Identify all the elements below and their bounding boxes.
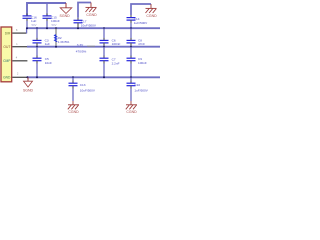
pin 1 wire xyxy=(12,46,27,48)
svg-text:CGND: CGND xyxy=(68,110,79,114)
svg-text:OUT: OUT xyxy=(3,45,10,49)
capacitor C16 xyxy=(26,13,28,16)
pin 2 wire xyxy=(12,76,27,78)
svg-text:CGND: CGND xyxy=(126,110,137,114)
svg-text:10uF/500V: 10uF/500V xyxy=(80,89,96,93)
junction dots rail C xyxy=(26,27,28,29)
capacitor C6 (x104 upper) xyxy=(103,28,105,38)
capacitor C9 (x131 lower) xyxy=(130,47,132,56)
junction dots rail D xyxy=(36,46,38,48)
chassis ground 4 xyxy=(126,101,137,109)
capacitor C15 xyxy=(46,13,48,16)
wire: rail E xyxy=(27,76,160,78)
wire: C14 top to chassis gnd 2 xyxy=(131,4,151,15)
svg-text:1uF/500V: 1uF/500V xyxy=(134,89,148,93)
capacitor C7 (x104 lower) xyxy=(103,47,105,56)
svg-text:1.3K/5%: 1.3K/5% xyxy=(58,40,70,44)
capacitor C13 (x73 bottom) xyxy=(72,77,74,81)
wire: vertical from pin8 up to rail C xyxy=(26,28,28,33)
svg-text:3.3V: 3.3V xyxy=(77,43,84,47)
svg-text:4: 4 xyxy=(16,57,18,60)
svg-text:GND: GND xyxy=(3,75,11,79)
svg-text:100nF: 100nF xyxy=(138,61,147,65)
wire: rail D xyxy=(27,46,160,48)
svg-text:C10: C10 xyxy=(134,83,140,87)
chassis ground 2 xyxy=(146,4,157,13)
capacitor C5 (x37 lower) xyxy=(36,47,38,56)
wire: top ground rail (SGND net) xyxy=(27,3,66,16)
pin 4 stub wire xyxy=(12,60,27,62)
svg-text:50V: 50V xyxy=(52,23,57,27)
IC U1 body xyxy=(1,27,12,82)
svg-text:2.2nF: 2.2nF xyxy=(112,61,120,65)
capacitor C14 xyxy=(130,15,132,18)
SGND power symbol (top) xyxy=(65,3,67,8)
wire C15 top vertical xyxy=(46,3,48,16)
resistor R2 xyxy=(55,28,57,47)
svg-text:470/5%: 470/5% xyxy=(76,50,87,54)
svg-text:8: 8 xyxy=(16,29,18,32)
svg-text:SGND: SGND xyxy=(23,88,34,92)
chassis ground 3 xyxy=(68,101,79,109)
capacitor C10 (x131 bottom) xyxy=(130,77,132,81)
capacitor C4 (x37 upper) xyxy=(36,28,38,38)
svg-text:CMP: CMP xyxy=(3,59,11,63)
svg-text:10uF/500V: 10uF/500V xyxy=(81,24,97,28)
svg-text:2: 2 xyxy=(17,73,19,76)
pin 8 wire xyxy=(12,32,26,34)
svg-text:CGND: CGND xyxy=(146,14,157,18)
svg-text:1uF/500V: 1uF/500V xyxy=(134,21,148,25)
SGND power symbol 2 xyxy=(27,77,29,81)
chassis ground 1 xyxy=(86,3,97,13)
svg-text:100nF: 100nF xyxy=(112,42,121,46)
junction dots rail E xyxy=(26,76,28,78)
svg-text:SGND: SGND xyxy=(60,14,71,18)
svg-text:C13: C13 xyxy=(80,83,86,87)
svg-text:1uF: 1uF xyxy=(45,42,50,46)
svg-text:47nF: 47nF xyxy=(138,42,145,46)
grey smudge on rail D xyxy=(87,45,95,47)
svg-text:10nF: 10nF xyxy=(45,61,52,65)
svg-text:50V: 50V xyxy=(32,23,37,27)
svg-text:CGND: CGND xyxy=(86,13,97,17)
svg-text:DIR: DIR xyxy=(5,31,11,35)
svg-text:1: 1 xyxy=(16,43,18,46)
wire: C17 top to chassis gnd xyxy=(78,3,91,18)
wire: rail C xyxy=(26,27,160,29)
capacitor C17 xyxy=(77,18,79,21)
capacitor C8 (x131 upper) xyxy=(130,28,132,38)
